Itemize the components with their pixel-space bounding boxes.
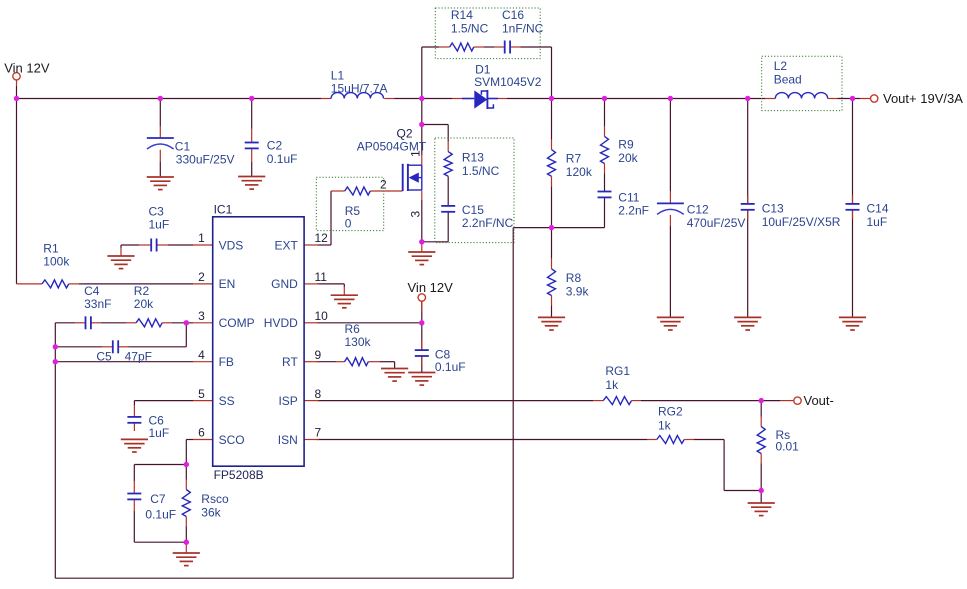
svg-text:R14: R14: [451, 8, 473, 22]
svg-text:C4: C4: [84, 284, 100, 298]
svg-text:11: 11: [315, 270, 328, 284]
svg-text:4: 4: [198, 348, 205, 362]
svg-text:15uH/7.7A: 15uH/7.7A: [331, 81, 388, 95]
svg-text:R2: R2: [134, 284, 150, 298]
svg-text:0.01: 0.01: [776, 440, 800, 454]
svg-text:1: 1: [198, 231, 205, 245]
svg-text:3.9k: 3.9k: [566, 285, 590, 299]
svg-text:130k: 130k: [345, 335, 372, 349]
svg-text:1uF: 1uF: [867, 215, 888, 229]
svg-text:1.5/NC: 1.5/NC: [462, 164, 500, 178]
svg-text:7: 7: [315, 426, 322, 440]
svg-text:470uF/25V: 470uF/25V: [687, 216, 746, 230]
svg-text:R6: R6: [345, 322, 361, 336]
svg-text:10uF/25V/X5R: 10uF/25V/X5R: [762, 215, 841, 229]
svg-text:Vin 12V: Vin 12V: [4, 60, 50, 75]
svg-text:2.2nF: 2.2nF: [618, 204, 649, 218]
svg-text:Q2: Q2: [397, 126, 413, 140]
svg-text:2: 2: [198, 270, 205, 284]
svg-text:C1: C1: [175, 139, 191, 153]
svg-text:20k: 20k: [134, 297, 154, 311]
svg-text:C3: C3: [149, 205, 165, 219]
svg-text:2.2nF/NC: 2.2nF/NC: [462, 216, 514, 230]
svg-text:1uF: 1uF: [149, 426, 170, 440]
svg-text:FB: FB: [219, 355, 234, 369]
svg-text:1k: 1k: [658, 418, 672, 432]
svg-text:C7: C7: [150, 492, 166, 506]
svg-text:20k: 20k: [618, 151, 638, 165]
svg-text:Vout-: Vout-: [804, 393, 834, 408]
svg-text:GND: GND: [271, 277, 298, 291]
svg-text:330uF/25V: 330uF/25V: [176, 152, 235, 166]
svg-text:L2: L2: [774, 59, 788, 73]
svg-text:IC1: IC1: [214, 202, 233, 216]
svg-text:Bead: Bead: [774, 73, 802, 87]
svg-text:C14: C14: [867, 202, 889, 216]
svg-text:SCO: SCO: [219, 433, 245, 447]
svg-text:C13: C13: [762, 202, 784, 216]
svg-text:120k: 120k: [566, 165, 593, 179]
svg-text:12: 12: [315, 231, 329, 245]
svg-text:C12: C12: [687, 202, 709, 216]
svg-text:5: 5: [198, 387, 205, 401]
svg-text:RG2: RG2: [658, 405, 683, 419]
svg-text:0.1uF: 0.1uF: [267, 152, 298, 166]
svg-text:0: 0: [345, 216, 352, 230]
svg-text:RT: RT: [282, 355, 298, 369]
svg-text:C2: C2: [267, 139, 283, 153]
svg-text:1.5/NC: 1.5/NC: [451, 21, 489, 35]
svg-text:R7: R7: [566, 152, 582, 166]
svg-text:HVDD: HVDD: [264, 316, 298, 330]
svg-text:100k: 100k: [43, 255, 70, 269]
svg-text:Rsco: Rsco: [201, 492, 229, 506]
svg-text:1k: 1k: [605, 378, 619, 392]
svg-text:R8: R8: [566, 271, 582, 285]
svg-text:Vin 12V: Vin 12V: [408, 280, 454, 295]
svg-text:2: 2: [380, 177, 387, 191]
svg-text:COMP: COMP: [219, 316, 255, 330]
svg-text:3: 3: [409, 211, 423, 218]
svg-text:0.1uF: 0.1uF: [435, 360, 466, 374]
svg-text:1uF: 1uF: [149, 218, 170, 232]
svg-text:EN: EN: [219, 277, 236, 291]
svg-text:10: 10: [315, 309, 329, 323]
svg-text:3: 3: [198, 309, 205, 323]
svg-text:C15: C15: [462, 203, 484, 217]
svg-text:SS: SS: [219, 394, 235, 408]
svg-text:L1: L1: [331, 68, 345, 82]
svg-text:36k: 36k: [201, 506, 221, 520]
svg-text:D1: D1: [475, 62, 491, 76]
svg-text:R13: R13: [462, 150, 484, 164]
svg-text:8: 8: [315, 387, 322, 401]
svg-text:33nF: 33nF: [84, 297, 111, 311]
svg-text:EXT: EXT: [274, 238, 298, 252]
svg-text:0.1uF: 0.1uF: [145, 508, 176, 522]
svg-text:VDS: VDS: [219, 238, 244, 252]
svg-text:6: 6: [198, 426, 205, 440]
svg-text:ISP: ISP: [278, 394, 297, 408]
svg-text:Vout+ 19V/3A: Vout+ 19V/3A: [883, 91, 963, 106]
svg-text:R9: R9: [618, 138, 634, 152]
svg-text:R1: R1: [43, 242, 59, 256]
svg-text:C16: C16: [502, 8, 524, 22]
svg-text:1: 1: [409, 150, 423, 157]
svg-text:9: 9: [315, 348, 322, 362]
svg-text:C11: C11: [618, 191, 639, 205]
svg-text:RG1: RG1: [605, 364, 630, 378]
svg-text:FP5208B: FP5208B: [214, 468, 264, 482]
svg-text:47pF: 47pF: [125, 350, 152, 364]
svg-text:C5: C5: [96, 350, 112, 364]
svg-text:SVM1045V2: SVM1045V2: [474, 75, 542, 89]
svg-text:1nF/NC: 1nF/NC: [502, 21, 544, 35]
svg-text:ISN: ISN: [278, 433, 298, 447]
